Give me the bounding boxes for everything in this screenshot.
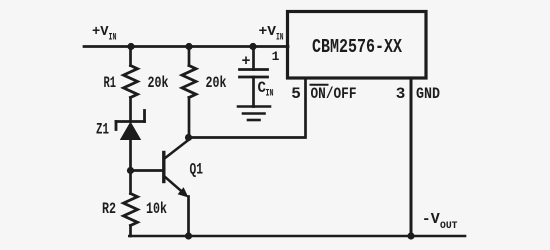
wire zener to node A: [129, 140, 132, 171]
svg-text:IN: IN: [276, 33, 284, 44]
junction dot top rail / R1: [127, 43, 134, 50]
wire 20k#2 top lead: [188, 47, 191, 66]
svg-text:ON/OFF: ON/OFF: [311, 85, 357, 103]
zener Z1 cathode bar: [116, 111, 145, 130]
wire top rail +VIN: [84, 45, 288, 48]
svg-text:+: +: [241, 53, 250, 70]
svg-text:+V: +V: [92, 25, 109, 40]
wire bottom rail: [129, 235, 465, 238]
svg-text:R1: R1: [104, 74, 117, 92]
wire 20k#2 bottom lead to node B: [188, 98, 191, 138]
svg-text:10k: 10k: [146, 200, 167, 218]
wire R1 top lead: [129, 47, 132, 66]
svg-text:IN: IN: [266, 89, 274, 100]
svg-text:Q1: Q1: [190, 161, 204, 179]
wire base wire: [131, 169, 163, 172]
svg-text:+V: +V: [259, 25, 277, 40]
svg-text:-V: -V: [422, 212, 440, 228]
transistor Q1 emitter arrowhead: [178, 187, 189, 197]
svg-text:R2: R2: [102, 200, 116, 218]
junction dot GND pin / bottom rail: [407, 232, 414, 239]
svg-text:3: 3: [396, 85, 406, 103]
junction dot top rail / 20k#2: [185, 43, 192, 50]
svg-text:IN: IN: [109, 33, 117, 44]
ground: [238, 107, 270, 121]
resistor R2: [124, 194, 138, 226]
resistor R1: [124, 66, 138, 98]
junction dot emitter / bottom rail: [185, 232, 192, 239]
wire node A to R2: [129, 171, 132, 194]
IC box CBM2576-XX: [288, 12, 427, 79]
transistor Q1 collector: [165, 140, 190, 159]
resistor 20k second: [182, 66, 196, 98]
junction dot top rail / CIN: [249, 43, 256, 50]
wire node B to ON/OFF pin5: [189, 78, 306, 138]
junction dot node B (20k/collector/pin5): [185, 134, 192, 141]
wire R1 to zener: [129, 98, 132, 122]
svg-text:Z1: Z1: [96, 121, 109, 139]
capacitor CIN: [240, 70, 268, 78]
wire emitter to bottom rail: [187, 197, 190, 237]
svg-text:20k: 20k: [206, 74, 227, 92]
svg-text:GND: GND: [416, 85, 440, 103]
svg-text:20k: 20k: [148, 74, 169, 92]
svg-text:CBM2576-XX: CBM2576-XX: [312, 36, 402, 58]
junction dot node A (zener/R2/base): [127, 167, 134, 174]
transistor Q1 base bar: [162, 153, 165, 182]
svg-text:5: 5: [291, 85, 301, 103]
wire GND pin3: [410, 78, 413, 236]
wire R2 bottom lead: [129, 226, 132, 237]
ON overline: [311, 84, 328, 86]
zener Z1 anode triangle: [120, 122, 141, 141]
svg-text:OUT: OUT: [440, 220, 458, 232]
svg-text:1: 1: [272, 49, 280, 64]
wire CIN to ground: [252, 77, 255, 107]
wire CIN top lead: [252, 47, 255, 70]
transistor Q1 emitter: [165, 177, 184, 194]
